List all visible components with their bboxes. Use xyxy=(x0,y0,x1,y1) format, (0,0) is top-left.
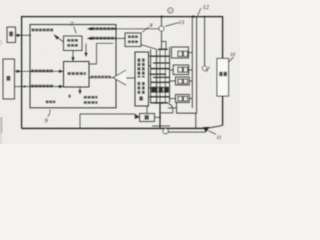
arrowhead left xyxy=(87,37,92,40)
balance box BB2 xyxy=(173,65,189,75)
label bottom char in U4 xyxy=(139,97,142,101)
box B2 (left charger) xyxy=(3,59,15,99)
numeral 13 with leader xyxy=(165,23,179,27)
label charge-status output xyxy=(32,29,54,32)
battery stack internal wires xyxy=(160,49,165,103)
junction mark xyxy=(69,95,71,98)
label discharge current sample xyxy=(31,85,53,88)
battery bottom bus xyxy=(151,102,168,104)
battery stack column outline xyxy=(151,47,170,103)
label column2b in U4 xyxy=(142,82,145,94)
junction arrow bottom right xyxy=(203,127,210,132)
numeral 9 with leader xyxy=(48,110,50,117)
wire battery negative down xyxy=(159,103,161,128)
label row1 in U3 xyxy=(128,36,138,39)
wire U3 to battery top xyxy=(141,45,157,50)
wire jog to second tap xyxy=(162,42,167,50)
wires balance boxes to right rail xyxy=(189,53,193,99)
wire bottom edge xyxy=(22,127,204,129)
balance box BB1 xyxy=(172,47,189,58)
wire U2 to U1 left xyxy=(72,51,74,61)
box B1 (left indicator) xyxy=(7,27,16,43)
wire battery bottom to balance common xyxy=(168,103,177,108)
label column2 in U4 xyxy=(142,59,145,78)
wire arrow below U1 xyxy=(79,87,81,92)
stub wires U4 to cells xyxy=(149,56,152,97)
junction dot rail xyxy=(160,16,162,18)
label temperature signal input xyxy=(92,37,115,40)
label row2 in U3 xyxy=(128,41,138,44)
svg-text:11: 11 xyxy=(216,135,221,141)
terminal circle T1 above rail xyxy=(168,8,173,13)
wire B2 upper to enclosure xyxy=(15,70,22,72)
balance box BB3 xyxy=(176,77,190,85)
wire row B xyxy=(22,86,64,88)
cell block with labels xyxy=(151,87,169,93)
balance box BB4 xyxy=(176,95,190,103)
label in B1 xyxy=(9,32,13,37)
terminal circle T2 xyxy=(159,26,164,31)
label battery voltage input xyxy=(92,27,115,30)
box U1 computing unit xyxy=(64,62,90,88)
wires cells to balance boxes xyxy=(170,70,176,99)
wire arrow into U1 top xyxy=(85,44,87,56)
wire row1 xyxy=(88,28,159,30)
box LOAD xyxy=(217,59,229,97)
svg-text:8: 8 xyxy=(150,23,153,29)
junction dot row B xyxy=(24,86,26,88)
wire B2 lower to enclosure xyxy=(15,86,22,88)
wire top rail drop right (balance rail) xyxy=(191,17,193,108)
terminal circle T4 xyxy=(202,66,206,70)
wire U1 to sampling box xyxy=(89,77,135,79)
wire row2 xyxy=(88,37,125,39)
label charge current sample xyxy=(31,70,53,73)
wire B1 to enclosure xyxy=(16,34,32,36)
numeral 11 with leader xyxy=(208,131,216,135)
svg-text:13: 13 xyxy=(179,20,185,26)
wire serial port run xyxy=(80,114,137,128)
outer enclosure box xyxy=(22,17,223,129)
arrowhead left xyxy=(87,27,92,30)
label row1 in U2 xyxy=(67,39,78,42)
box U4 sampling and balance circuit xyxy=(135,52,149,106)
wire second right drop xyxy=(196,17,198,114)
label balance control output xyxy=(91,76,111,79)
inner controller IC box xyxy=(30,25,116,108)
label column1b in U4 xyxy=(138,82,141,94)
junction dot xyxy=(114,28,116,30)
terminal circle T3 on bottom rail xyxy=(163,129,168,134)
wire sampling box to CN1 xyxy=(146,106,148,114)
numeral 8 leader xyxy=(142,27,149,32)
wire L-shaped xyxy=(89,43,113,64)
label near bottom edge xyxy=(46,101,55,104)
bus arrow (hollow) xyxy=(113,70,126,85)
numeral 10 leader xyxy=(229,57,234,62)
svg-text:12: 12 xyxy=(203,5,209,11)
wire bottom-right slope xyxy=(209,125,223,128)
box U3 power supply circuit xyxy=(125,33,141,47)
wire row A xyxy=(22,70,64,72)
wire leader with arrow from reference box xyxy=(56,36,64,42)
junction dot rail xyxy=(192,15,194,17)
junction dot rail xyxy=(204,16,206,18)
box connector CN1 xyxy=(140,114,155,122)
arrowhead xyxy=(17,70,21,73)
numeral 12 with leader xyxy=(198,8,201,15)
svg-text:9: 9 xyxy=(45,119,48,125)
box U2 main reference source xyxy=(64,36,83,51)
label memory block row2 xyxy=(84,101,98,104)
junction dot xyxy=(115,37,117,39)
label in U1 xyxy=(68,72,86,75)
label in B2 xyxy=(7,76,11,81)
wire CN1 to negative rail xyxy=(155,116,161,118)
tick left of load xyxy=(206,67,209,72)
wire tap with terminal xyxy=(204,17,206,67)
label column1 in U4 xyxy=(138,59,141,78)
wire top rail drop left xyxy=(161,17,163,50)
label row2 in U2 xyxy=(67,44,78,47)
arrowhead into enclosure xyxy=(17,34,21,37)
svg-text:10: 10 xyxy=(230,53,236,58)
label memory block row1 xyxy=(84,96,98,99)
cell plate bars xyxy=(158,48,168,50)
